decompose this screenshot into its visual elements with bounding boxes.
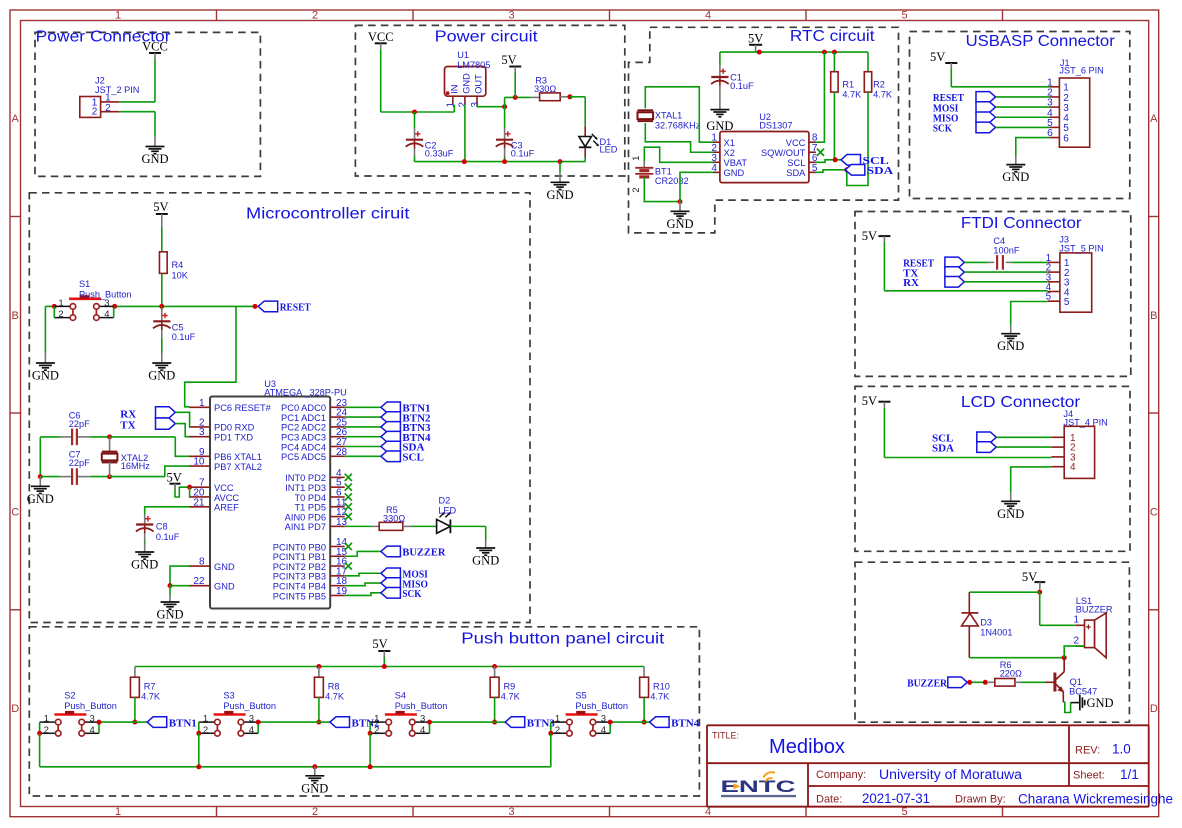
svg-text:PC0 ADC0: PC0 ADC0 [281, 403, 326, 413]
svg-text:GND: GND [214, 562, 235, 572]
svg-text:21: 21 [193, 497, 205, 508]
svg-text:D3: D3 [980, 618, 992, 628]
svg-text:D: D [11, 703, 19, 715]
svg-text:VCC: VCC [368, 30, 394, 44]
svg-text:4.7K: 4.7K [325, 691, 345, 701]
svg-text:GND: GND [156, 608, 183, 622]
svg-text:Charana Wickremesinghe: Charana Wickremesinghe [1018, 792, 1173, 807]
svg-text:4: 4 [420, 725, 425, 736]
svg-text:GND: GND [997, 339, 1024, 353]
svg-text:REV:: REV: [1075, 745, 1100, 757]
svg-text:AREF: AREF [214, 503, 239, 513]
svg-text:1: 1 [203, 714, 208, 725]
svg-text:0.1uF: 0.1uF [172, 332, 196, 342]
svg-text:1: 1 [199, 398, 205, 409]
svg-text:2021-07-31: 2021-07-31 [862, 791, 930, 806]
svg-text:22pF: 22pF [69, 458, 90, 468]
svg-text:U1: U1 [457, 50, 469, 60]
svg-text:SCL: SCL [787, 158, 805, 168]
svg-text:R8: R8 [328, 681, 340, 691]
svg-text:Date:: Date: [816, 794, 842, 806]
svg-text:Microcontroller ciruit: Microcontroller ciruit [246, 206, 410, 223]
svg-text:FTDI Connector: FTDI Connector [961, 215, 1082, 232]
svg-text:5V: 5V [862, 229, 877, 243]
svg-text:2: 2 [312, 806, 318, 818]
svg-text:AIN0 PD6: AIN0 PD6 [285, 512, 326, 522]
svg-text:SDA: SDA [932, 442, 954, 454]
svg-text:S3: S3 [223, 691, 234, 701]
svg-text:1: 1 [631, 156, 642, 161]
svg-text:3: 3 [420, 714, 425, 725]
svg-text:3: 3 [90, 714, 95, 725]
svg-text:C8: C8 [156, 522, 168, 532]
svg-text:University of Moratuwa: University of Moratuwa [879, 767, 1023, 782]
svg-text:RX: RX [903, 277, 919, 289]
svg-text:3: 3 [249, 714, 254, 725]
svg-text:2: 2 [631, 187, 642, 192]
svg-text:INT1 PD3: INT1 PD3 [285, 483, 326, 493]
svg-text:GND: GND [148, 369, 175, 383]
svg-text:5V: 5V [501, 53, 516, 67]
svg-text:PC2 ADC2: PC2 ADC2 [281, 423, 326, 433]
svg-text:GND: GND [462, 73, 472, 94]
svg-text:T0 PD4: T0 PD4 [294, 493, 326, 503]
svg-text:LED: LED [438, 505, 456, 515]
svg-text:A: A [1150, 113, 1158, 125]
svg-text:1: 1 [1073, 615, 1079, 626]
svg-text:X1: X1 [724, 138, 735, 148]
svg-text:6: 6 [1063, 133, 1069, 144]
svg-text:4: 4 [90, 725, 95, 736]
svg-text:1/1: 1/1 [1120, 767, 1139, 782]
svg-text:2: 2 [1073, 635, 1079, 646]
svg-text:Push_Button: Push_Button [575, 701, 628, 711]
svg-text:10: 10 [193, 457, 205, 468]
svg-text:SCK: SCK [933, 123, 952, 135]
svg-text:C5: C5 [172, 322, 184, 332]
svg-text:PB6 XTAL1: PB6 XTAL1 [214, 452, 262, 462]
svg-text:LED: LED [600, 144, 618, 154]
svg-text:D: D [1150, 703, 1158, 715]
svg-text:100nF: 100nF [993, 245, 1019, 255]
svg-text:GND: GND [131, 558, 158, 572]
svg-text:0.1uF: 0.1uF [511, 149, 535, 159]
svg-text:3: 3 [508, 10, 514, 22]
svg-text:1N4001: 1N4001 [980, 628, 1012, 638]
svg-text:VCC: VCC [214, 483, 234, 493]
svg-text:2: 2 [105, 103, 111, 114]
svg-text:OUT: OUT [474, 74, 484, 94]
svg-text:3: 3 [601, 714, 606, 725]
svg-text:3: 3 [104, 298, 109, 309]
svg-text:JST_6 PIN: JST_6 PIN [1059, 66, 1103, 76]
svg-text:4.7K: 4.7K [650, 691, 670, 701]
svg-text:PC6 RESET#: PC6 RESET# [214, 403, 272, 413]
svg-text:4.7K: 4.7K [842, 90, 862, 100]
svg-text:1: 1 [105, 92, 111, 103]
svg-text:SDA: SDA [867, 165, 893, 177]
svg-text:VCC: VCC [786, 138, 806, 148]
svg-text:GND: GND [1002, 170, 1029, 184]
svg-text:S4: S4 [395, 691, 406, 701]
svg-text:2: 2 [58, 309, 63, 320]
svg-text:5V: 5V [748, 31, 763, 45]
svg-text:330Ω: 330Ω [534, 84, 556, 94]
svg-text:BUZZER: BUZZER [1076, 605, 1113, 615]
svg-text:B: B [12, 310, 19, 322]
svg-text:2: 2 [92, 107, 98, 118]
svg-text:GND: GND [141, 152, 168, 166]
svg-text:PC3 ADC3: PC3 ADC3 [281, 433, 326, 443]
svg-text:GND: GND [666, 217, 693, 231]
svg-text:GND: GND [214, 581, 235, 591]
svg-text:0.33uF: 0.33uF [425, 149, 454, 159]
svg-text:B: B [1150, 310, 1157, 322]
svg-text:2: 2 [458, 102, 469, 108]
svg-text:BUZZER: BUZZER [402, 547, 446, 559]
svg-text:BT1: BT1 [655, 167, 672, 177]
svg-text:C: C [11, 507, 19, 519]
svg-text:10K: 10K [172, 271, 189, 281]
svg-text:0.1uF: 0.1uF [730, 81, 754, 91]
svg-text:X2: X2 [724, 148, 735, 158]
svg-text:1: 1 [44, 714, 49, 725]
svg-text:PC1 ADC1: PC1 ADC1 [281, 413, 326, 423]
svg-text:3: 3 [508, 806, 514, 818]
svg-text:JST_2 PIN: JST_2 PIN [95, 85, 139, 95]
svg-text:22: 22 [193, 576, 205, 587]
svg-text:USBASP Connector: USBASP Connector [966, 33, 1115, 50]
svg-text:PCINT2 PB2: PCINT2 PB2 [273, 562, 326, 572]
svg-text:4: 4 [1070, 462, 1076, 473]
svg-text:Q1: Q1 [1070, 677, 1082, 687]
svg-text:CR2032: CR2032 [655, 176, 689, 186]
svg-text:1: 1 [374, 714, 379, 725]
svg-text:PCINT4 PB4: PCINT4 PB4 [273, 581, 326, 591]
svg-text:5V: 5V [930, 50, 945, 64]
svg-text:TITLE:: TITLE: [712, 731, 739, 741]
svg-text:5V: 5V [862, 394, 877, 408]
svg-text:R7: R7 [144, 681, 156, 691]
svg-text:PCINT1 PB1: PCINT1 PB1 [273, 552, 326, 562]
svg-text:Drawn By:: Drawn By: [955, 794, 1006, 806]
svg-text:4: 4 [249, 725, 254, 736]
svg-text:AIN1 PD7: AIN1 PD7 [285, 522, 326, 532]
svg-text:Push button panel circuit: Push button panel circuit [461, 630, 665, 647]
svg-text:JST_4 PIN: JST_4 PIN [1063, 418, 1107, 428]
svg-text:PD1 TXD: PD1 TXD [214, 433, 253, 443]
svg-text:T1 PD5: T1 PD5 [294, 503, 326, 513]
svg-text:A: A [12, 113, 20, 125]
svg-text:1.0: 1.0 [1112, 742, 1131, 757]
svg-text:TX: TX [120, 419, 135, 431]
svg-text:4.7K: 4.7K [873, 90, 893, 100]
svg-text:D2: D2 [439, 496, 451, 506]
svg-text:2: 2 [203, 725, 208, 736]
svg-text:RTC circuit: RTC circuit [790, 28, 875, 45]
svg-text:1: 1 [115, 806, 121, 818]
svg-text:5: 5 [1064, 297, 1070, 308]
svg-text:SDA: SDA [786, 168, 806, 178]
svg-text:PC5 ADC5: PC5 ADC5 [281, 452, 326, 462]
svg-text:Push_Button: Push_Button [79, 289, 132, 299]
svg-text:5V: 5V [153, 200, 168, 214]
svg-text:R4: R4 [172, 260, 184, 270]
svg-text:ATMEGA _328P-PU: ATMEGA _328P-PU [264, 388, 347, 398]
svg-text:GND: GND [724, 168, 745, 178]
svg-text:PD0 RXD: PD0 RXD [214, 423, 255, 433]
svg-text:R9: R9 [504, 681, 516, 691]
svg-text:VCC: VCC [142, 40, 168, 54]
svg-text:330Ω: 330Ω [383, 513, 405, 523]
svg-text:PC4 ADC4: PC4 ADC4 [281, 442, 326, 452]
svg-text:2: 2 [374, 725, 379, 736]
svg-text:C: C [1150, 507, 1158, 519]
svg-text:BTN4: BTN4 [671, 717, 700, 729]
svg-text:4: 4 [705, 10, 711, 22]
svg-text:LM7805: LM7805 [457, 60, 490, 70]
svg-text:SQW/OUT: SQW/OUT [761, 148, 806, 158]
svg-text:VBAT: VBAT [724, 158, 748, 168]
svg-text:Sheet:: Sheet: [1073, 770, 1105, 782]
svg-text:5V: 5V [167, 471, 182, 485]
svg-text:4: 4 [104, 309, 109, 320]
svg-text:PCINT3 PB3: PCINT3 PB3 [273, 572, 326, 582]
svg-text:GND: GND [546, 188, 573, 202]
svg-text:INT0 PD2: INT0 PD2 [285, 473, 326, 483]
svg-text:Push_Button: Push_Button [223, 701, 276, 711]
svg-text:Medibox: Medibox [769, 736, 845, 758]
svg-text:1: 1 [555, 714, 560, 725]
svg-text:4.7K: 4.7K [501, 691, 521, 701]
svg-text:SCL: SCL [402, 452, 423, 464]
svg-text:AVCC: AVCC [214, 493, 239, 503]
svg-text:RESET: RESET [280, 302, 312, 314]
svg-text:1: 1 [58, 298, 63, 309]
svg-text:GND: GND [472, 554, 499, 568]
svg-text:GND: GND [301, 781, 328, 795]
svg-text:22pF: 22pF [69, 419, 90, 429]
svg-text:0.1uF: 0.1uF [156, 532, 180, 542]
svg-text:R10: R10 [653, 681, 670, 691]
svg-text:2: 2 [44, 725, 49, 736]
svg-text:JST_5 PIN: JST_5 PIN [1059, 243, 1103, 253]
svg-text:Power circuit: Power circuit [435, 28, 539, 45]
svg-text:S1: S1 [79, 279, 90, 289]
svg-text:Push_Button: Push_Button [395, 701, 448, 711]
svg-text:PCINT5 PB5: PCINT5 PB5 [273, 591, 326, 601]
svg-text:S5: S5 [575, 691, 586, 701]
svg-text:PB7 XTAL2: PB7 XTAL2 [214, 462, 262, 472]
svg-text:5V: 5V [372, 637, 387, 651]
svg-text:8: 8 [199, 557, 205, 568]
svg-text:ENTC: ENTC [721, 778, 796, 796]
svg-text:IN: IN [449, 84, 459, 93]
svg-text:5: 5 [901, 10, 907, 22]
svg-text:2: 2 [312, 10, 318, 22]
svg-text:32.768KHz: 32.768KHz [655, 120, 701, 130]
svg-text:16MHz: 16MHz [121, 461, 151, 471]
svg-text:R1: R1 [842, 80, 854, 90]
svg-text:BUZZER: BUZZER [907, 678, 948, 690]
svg-text:GND: GND [1087, 696, 1114, 710]
svg-text:DS1307: DS1307 [759, 121, 792, 131]
svg-text:1: 1 [115, 10, 121, 22]
svg-text:R2: R2 [873, 80, 885, 90]
svg-text:SCK: SCK [402, 588, 421, 600]
svg-text:3: 3 [199, 427, 205, 438]
svg-text:220Ω: 220Ω [1000, 668, 1022, 678]
svg-text:Push_Button: Push_Button [64, 701, 117, 711]
svg-text:GND: GND [997, 507, 1024, 521]
svg-text:4.7K: 4.7K [141, 691, 161, 701]
svg-text:GND: GND [32, 369, 59, 383]
svg-text:PCINT0 PB0: PCINT0 PB0 [273, 542, 326, 552]
svg-text:Company:: Company: [816, 769, 866, 781]
svg-text:GND: GND [27, 492, 54, 506]
svg-text:S2: S2 [64, 691, 75, 701]
svg-text:LCD Connector: LCD Connector [961, 394, 1080, 411]
svg-text:XTAL1: XTAL1 [655, 111, 682, 121]
svg-text:BC547: BC547 [1069, 686, 1097, 696]
svg-text:2: 2 [555, 725, 560, 736]
svg-text:4: 4 [601, 725, 606, 736]
svg-text:BTN1: BTN1 [169, 717, 197, 729]
